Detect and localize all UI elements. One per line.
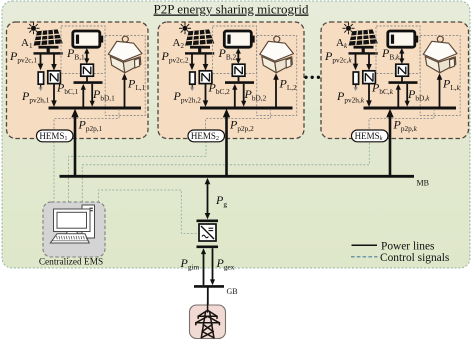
grid AC/DC converter [199,224,216,241]
control signal HEMS1 to EMS [53,142,55,203]
svg-text:Centralized EMS: Centralized EMS [39,258,103,268]
house unit 2 components [179,22,297,176]
svg-text:Power lines: Power lines [381,241,435,253]
grid converter top plate [197,220,219,223]
control signal EMS to grid converter [98,190,198,234]
house block 1 boundary [7,22,149,139]
legend control signals [351,256,378,258]
grid bus GB [194,285,224,288]
utility grid box [190,305,226,339]
main bus MB [60,175,415,178]
wire P_gex (export) [212,248,214,280]
grid converter bottom plate [197,246,219,249]
EMS computer icon [50,205,94,243]
HEMSk controller [352,130,389,142]
control signal trunk HEMSk to EMS [82,142,369,203]
svg-text:MB: MB [417,179,429,188]
svg-text:HEMSk: HEMSk [355,131,383,142]
microgrid boundary (green container) [0,0,1,1]
HEMS2 controller [188,130,225,142]
HEMS1 controller [37,130,74,142]
control signal trunk HEMS2 to EMS [69,142,206,203]
legend power lines [352,244,378,246]
wire P_g (bidirectional) [207,183,209,214]
ellipsis between blocks [304,76,320,79]
house unit k components [343,22,461,176]
svg-text:P2P energy sharing microgrid: P2P energy sharing microgrid [154,2,309,17]
svg-text:HEMS1: HEMS1 [39,131,67,142]
svg-text:GB: GB [227,287,238,296]
house block 2 boundary [158,22,304,139]
wire P_gim (import) [203,253,205,285]
house unit 1 components [28,22,146,176]
svg-text:HEMS2: HEMS2 [191,131,219,142]
transmission tower icon [196,303,220,338]
svg-text:Control signals: Control signals [380,252,450,264]
house block k boundary [321,22,469,139]
wire GB to grid [207,288,209,306]
centralized EMS box [43,202,105,257]
